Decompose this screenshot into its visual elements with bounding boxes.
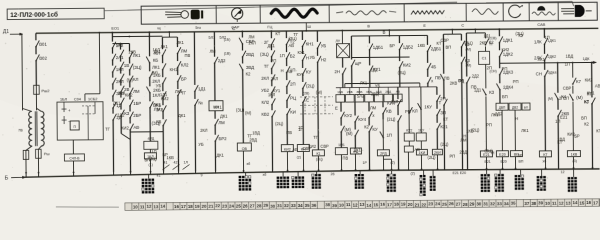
legend icon: bold sine wave xyxy=(271,9,317,17)
svg-text:С: С xyxy=(461,22,464,27)
svg-text:СВР: СВР xyxy=(563,86,572,91)
svg-text:1КВ: 1КВ xyxy=(466,128,474,133)
svg-text:12: 12 xyxy=(559,201,564,206)
svg-text:КУ: КУ xyxy=(306,69,312,74)
svg-text:1СБ2: 1СБ2 xyxy=(88,97,98,101)
svg-text:34: 34 xyxy=(298,203,303,208)
branch 1KV xyxy=(572,63,574,78)
svg-text:31: 31 xyxy=(277,203,282,208)
svg-text:ВП: ВП xyxy=(445,45,451,50)
top supply bus xyxy=(36,28,598,33)
svg-text:1Л: 1Л xyxy=(183,160,188,164)
wire D1 lead xyxy=(10,33,22,35)
svg-text:2БР: 2БР xyxy=(133,113,141,118)
label speckle xyxy=(104,28,600,162)
svg-text:ЗП: ЗП xyxy=(440,110,446,115)
svg-text:1ДБ2: 1ДБ2 xyxy=(403,45,414,50)
svg-text:2ВД: 2ВД xyxy=(459,150,467,155)
svg-text:2Д2: 2Д2 xyxy=(495,111,503,116)
svg-text:(2Ц): (2Ц) xyxy=(306,83,315,88)
svg-text:КИ2: КИ2 xyxy=(585,77,593,82)
branch 1KL chain xyxy=(111,33,113,42)
svg-text:Е: Е xyxy=(423,23,426,28)
svg-text:ТГ: ТГ xyxy=(293,32,299,37)
svg-text:УБ: УБ xyxy=(321,43,327,48)
svg-text:РЦ: РЦ xyxy=(290,96,297,101)
svg-text:1КУ: 1КУ xyxy=(424,104,432,109)
terminal block 14 xyxy=(573,169,575,177)
svg-text:ПВ: ПВ xyxy=(185,53,191,58)
coil 1KL xyxy=(149,149,151,152)
svg-text:2КЛ: 2КЛ xyxy=(248,40,256,45)
svg-text:Н: Н xyxy=(489,41,492,46)
svg-text:(2В): (2В) xyxy=(303,91,309,95)
svg-text:1Д1: 1Д1 xyxy=(483,33,491,38)
boxes DVP row xyxy=(496,103,508,110)
svg-text:КВ: КВ xyxy=(156,119,161,124)
svg-text:Н: Н xyxy=(281,68,284,73)
svg-text:16: 16 xyxy=(380,202,385,207)
svg-text:Рш: Рш xyxy=(44,152,50,156)
svg-text:Д1: Д1 xyxy=(3,29,9,35)
branch LK1 chain xyxy=(128,43,130,51)
svg-text:(М): (М) xyxy=(152,70,159,75)
svg-text:КИ2: КИ2 xyxy=(284,147,291,151)
svg-text:12: 12 xyxy=(561,170,565,174)
svg-text:26: 26 xyxy=(449,201,454,206)
branch 400 xyxy=(398,36,400,43)
svg-text:РП: РП xyxy=(513,79,519,84)
branch 2RD xyxy=(382,102,384,107)
svg-text:14: 14 xyxy=(160,204,165,209)
svg-text:КУ1: КУ1 xyxy=(273,88,281,93)
svg-text:РД: РД xyxy=(459,79,464,84)
svg-text:КЛ: КЛ xyxy=(412,108,418,113)
svg-text:АВ: АВ xyxy=(595,83,600,88)
svg-text:1ДБ1: 1ДБ1 xyxy=(373,45,384,50)
svg-text:(М): (М) xyxy=(127,77,134,82)
svg-text:КН1: КН1 xyxy=(170,67,178,72)
legend divider xyxy=(215,6,217,24)
svg-text:25: 25 xyxy=(236,204,241,209)
svg-text:ЛМ: ЛМ xyxy=(248,34,255,39)
svg-text:12·ПЛ2·000·1сб: 12·ПЛ2·000·1сб xyxy=(10,11,58,19)
svg-text:ДК1: ДК1 xyxy=(154,49,162,54)
svg-text:КЛ2: КЛ2 xyxy=(181,62,189,67)
svg-text:2Д2: 2Д2 xyxy=(117,113,125,118)
wire rect box to C04-V xyxy=(72,140,74,154)
svg-text:(М): (М) xyxy=(576,95,583,100)
svg-text:1КЛ: 1КЛ xyxy=(116,67,124,72)
coil KI2 xyxy=(281,145,293,152)
legend icon: dome over wave xyxy=(538,6,545,10)
branch pair 163-178 xyxy=(162,36,177,38)
legend strip frame xyxy=(141,2,597,24)
svg-text:2ДК4: 2ДК4 xyxy=(503,85,514,90)
svg-text:1БР: 1БР xyxy=(133,101,141,106)
svg-text:14: 14 xyxy=(572,200,577,205)
svg-text:КИ: КИ xyxy=(290,110,296,115)
svg-text:УБ: УБ xyxy=(310,55,316,60)
wire from DV2 xyxy=(514,110,516,150)
svg-text:12: 12 xyxy=(147,204,152,209)
coil K1 xyxy=(312,150,324,156)
loop K2 right xyxy=(474,29,476,33)
svg-text:Н: Н xyxy=(466,61,469,66)
svg-text:(М): (М) xyxy=(245,110,252,115)
svg-text:13: 13 xyxy=(153,204,158,209)
svg-text:41: 41 xyxy=(163,161,167,165)
bottom chain contacts xyxy=(163,165,170,170)
legend icon: plug 2 xyxy=(561,8,574,10)
rectifier box xyxy=(57,102,103,140)
svg-text:ЛК1: ЛК1 xyxy=(176,40,184,45)
branch DK chain xyxy=(498,28,500,30)
switch V01 xyxy=(35,33,37,40)
fuse left sec xyxy=(26,146,32,150)
svg-text:2Д2: 2Д2 xyxy=(218,58,226,63)
mechanical dashed links xyxy=(300,96,333,98)
svg-text:5Л2: 5Л2 xyxy=(357,93,365,98)
svg-text:28: 28 xyxy=(257,204,262,209)
svg-text:Е21: Е21 xyxy=(484,160,490,164)
svg-text:13: 13 xyxy=(360,202,365,207)
svg-text:17: 17 xyxy=(593,200,598,205)
terminal block 9 xyxy=(432,170,434,176)
svg-text:хб: хб xyxy=(263,173,267,177)
coil OV xyxy=(237,143,251,151)
svg-text:30: 30 xyxy=(476,201,481,206)
svg-text:С4Л-В: С4Л-В xyxy=(69,156,80,160)
svg-text:ГЦ: ГЦ xyxy=(267,24,272,29)
coil VP xyxy=(510,151,522,157)
terminal block 3 xyxy=(282,172,284,177)
svg-text:⟨2⟩: ⟨2⟩ xyxy=(296,155,301,159)
wire tie y58 xyxy=(352,56,410,59)
svg-text:ТГ: ТГ xyxy=(247,133,253,138)
svg-text:28: 28 xyxy=(463,202,468,207)
fuse RSh2 xyxy=(34,85,40,94)
branch KU2 boxes xyxy=(408,87,410,133)
svg-text:К7: К7 xyxy=(576,79,582,84)
svg-text:15: 15 xyxy=(579,201,584,206)
svg-text:1ВД: 1ВД xyxy=(252,130,260,135)
svg-text:КУ4: КУ4 xyxy=(358,117,366,122)
svg-text:35: 35 xyxy=(305,203,310,208)
svg-text:КН1: КН1 xyxy=(306,41,315,46)
svg-text:1П: 1П xyxy=(565,62,570,67)
svg-text:Ш: Ш xyxy=(307,24,311,29)
selector boxes row xyxy=(336,95,345,103)
svg-text:2КЛ: 2КЛ xyxy=(116,79,124,84)
terminal block 13 xyxy=(541,169,543,176)
branch KI4 xyxy=(397,87,399,99)
svg-text:1ЛК: 1ЛК xyxy=(534,39,542,44)
svg-text:1ВД: 1ВД xyxy=(566,54,574,59)
legend icon: plug connector xyxy=(165,11,181,14)
svg-text:РП: РП xyxy=(405,109,411,114)
svg-text:(М): (М) xyxy=(548,97,553,101)
wire tie y130 xyxy=(130,131,163,133)
svg-text:2П: 2П xyxy=(487,65,492,70)
svg-text:1КВ: 1КВ xyxy=(156,107,164,112)
legend icon: dashed wave xyxy=(336,12,343,13)
svg-text:РП: РП xyxy=(502,66,508,71)
terminal block 4 xyxy=(297,172,299,177)
svg-text:26: 26 xyxy=(331,172,335,176)
wire from DVP xyxy=(501,110,503,150)
svg-text:23: 23 xyxy=(222,204,227,209)
svg-text:хб: хб xyxy=(542,159,546,163)
svg-text:Е21 Е20: Е21 Е20 xyxy=(453,171,467,175)
bus stubs xyxy=(25,172,27,177)
svg-text:ВП: ВП xyxy=(581,115,587,120)
svg-text:2ДК2: 2ДК2 xyxy=(548,55,557,59)
svg-text:34: 34 xyxy=(504,201,509,206)
svg-text:ЛМ: ЛМ xyxy=(218,120,225,125)
svg-text:КУ2: КУ2 xyxy=(344,113,352,118)
legend divider xyxy=(557,3,559,21)
svg-text:ВП: ВП xyxy=(502,94,508,99)
svg-text:10: 10 xyxy=(133,204,138,209)
svg-text:ЕО1: ЕО1 xyxy=(111,25,119,30)
svg-text:(2Ц): (2Ц) xyxy=(398,70,407,75)
lamp LSD box xyxy=(341,31,343,44)
svg-text:(М): (М) xyxy=(346,131,353,136)
svg-text:11: 11 xyxy=(346,202,351,207)
svg-text:РП: РП xyxy=(271,58,277,63)
terminal block 2 xyxy=(245,172,247,175)
svg-text:КЗ: КЗ xyxy=(124,111,129,116)
branch 2KI coil xyxy=(436,87,438,95)
svg-text:1КВ: 1КВ xyxy=(417,43,425,48)
branch 1KI coil xyxy=(420,87,422,133)
branch K7 right xyxy=(591,62,593,97)
svg-text:2КВ: 2КВ xyxy=(450,81,458,86)
svg-text:ТГ: ТГ xyxy=(313,135,319,140)
svg-text:САР: САР xyxy=(231,24,239,29)
legend divider xyxy=(465,3,467,21)
legend divider xyxy=(528,3,530,21)
svg-text:1П: 1П xyxy=(298,127,303,132)
svg-text:(1Б): (1Б) xyxy=(224,38,231,42)
legend icon: fine zigzag xyxy=(411,11,444,15)
svg-text:КТ: КТ xyxy=(443,117,448,122)
box 1RB xyxy=(335,148,347,155)
svg-text:ПВ: ПВ xyxy=(286,130,292,135)
coil 2KI xyxy=(432,149,442,155)
branch 428 xyxy=(426,35,428,44)
svg-text:(М): (М) xyxy=(316,90,323,95)
box 1LK xyxy=(209,101,223,111)
svg-text:Т: Т xyxy=(439,100,442,105)
svg-text:21: 21 xyxy=(415,202,420,207)
svg-text:4Б: 4Б xyxy=(431,64,436,69)
svg-text:2РД: 2РД xyxy=(380,152,387,156)
svg-text:23: 23 xyxy=(428,201,433,206)
svg-text:Н: Н xyxy=(463,134,466,139)
svg-text:31: 31 xyxy=(483,201,488,206)
svg-text:1РБ: 1РБ xyxy=(338,143,345,147)
svg-text:К2: К2 xyxy=(364,124,369,129)
svg-text:32: 32 xyxy=(490,201,495,206)
svg-text:1ДК: 1ДК xyxy=(583,57,591,61)
svg-text:ДК1: ДК1 xyxy=(178,113,186,118)
terminal block 1 xyxy=(148,174,150,178)
svg-text:14: 14 xyxy=(366,203,371,208)
wire tie 113-130 xyxy=(112,42,129,44)
svg-text:20: 20 xyxy=(202,204,207,209)
coil RD xyxy=(350,148,361,154)
terminal block 12 xyxy=(520,169,522,175)
svg-text:АВ: АВ xyxy=(287,69,293,74)
legend divider xyxy=(502,3,504,21)
branch K1 xyxy=(316,31,318,42)
svg-text:Н2: Н2 xyxy=(321,57,327,62)
svg-text:5го: 5го xyxy=(195,25,201,30)
svg-text:КИ2: КИ2 xyxy=(121,125,129,130)
svg-text:Е: Е xyxy=(306,97,309,102)
svg-text:2П: 2П xyxy=(564,96,569,101)
wire tie row E xyxy=(336,86,437,89)
svg-text:15: 15 xyxy=(373,202,378,207)
svg-text:КТ: КТ xyxy=(436,41,441,46)
svg-text:36: 36 xyxy=(311,203,316,208)
junction strip to bus xyxy=(305,23,307,31)
bottom return bus xyxy=(25,168,600,177)
svg-text:(2Ц): (2Ц) xyxy=(316,157,323,161)
resistor 4RD xyxy=(144,141,158,149)
branch 369 xyxy=(368,102,370,111)
svg-text:1П: 1П xyxy=(280,53,285,58)
svg-text:11: 11 xyxy=(140,204,145,209)
svg-text:ПВ: ПВ xyxy=(342,156,348,161)
svg-text:ЛК1: ЛК1 xyxy=(152,65,160,70)
svg-text:ДК1: ДК1 xyxy=(267,43,275,48)
svg-text:БР: БР xyxy=(574,134,580,139)
svg-text:ЛК1: ЛК1 xyxy=(175,89,183,94)
svg-text:К1: К1 xyxy=(316,152,320,156)
svg-text:(ЗЦ): (ЗЦ) xyxy=(148,156,157,161)
svg-text:КТ: КТ xyxy=(275,31,280,36)
svg-text:УБ: УБ xyxy=(198,142,204,147)
svg-text:2КВ: 2КВ xyxy=(129,49,137,54)
svg-text:1П: 1П xyxy=(151,149,156,154)
terminal block 8 xyxy=(423,170,425,175)
svg-text:щР: щР xyxy=(355,61,362,66)
svg-text:СВР: СВР xyxy=(320,144,329,149)
svg-text:2Н: 2Н xyxy=(334,69,340,74)
svg-text:В: В xyxy=(382,30,385,35)
svg-text:ПВ: ПВ xyxy=(444,76,450,81)
svg-text:КИ2: КИ2 xyxy=(403,63,412,68)
svg-text:КЛ2: КЛ2 xyxy=(261,100,269,105)
svg-text:В: В xyxy=(367,23,370,28)
branch 2KV xyxy=(557,63,559,93)
svg-text:(ЗЦ): (ЗЦ) xyxy=(260,52,269,57)
legend icon: circle with tick xyxy=(509,5,521,18)
svg-text:РП: РП xyxy=(116,43,122,48)
fuse right sec xyxy=(38,146,41,149)
svg-text:1Р: 1Р xyxy=(362,161,367,165)
legend icon: small sine xyxy=(472,9,498,15)
svg-text:КТ: КТ xyxy=(587,91,592,96)
coil KT xyxy=(539,151,551,157)
svg-text:27: 27 xyxy=(250,203,255,208)
svg-text:38: 38 xyxy=(325,202,330,207)
branch 1D1 xyxy=(193,32,195,85)
branch LM xyxy=(213,32,215,57)
svg-text:ЛМ: ЛМ xyxy=(133,89,140,94)
svg-text:УБ: УБ xyxy=(375,83,381,88)
coil KN xyxy=(297,144,309,151)
branch 370 xyxy=(368,36,370,43)
coil E20 xyxy=(496,151,508,157)
svg-text:37: 37 xyxy=(524,201,529,206)
svg-text:(2Ц): (2Ц) xyxy=(427,155,436,160)
svg-text:4РД: 4РД xyxy=(147,137,154,141)
svg-text:11: 11 xyxy=(552,201,557,206)
svg-text:20: 20 xyxy=(408,202,413,207)
coil E21 xyxy=(480,151,492,157)
svg-text:2КЛ: 2КЛ xyxy=(261,76,269,81)
svg-text:2КЛ: 2КЛ xyxy=(271,76,279,81)
svg-text:2ВД: 2ВД xyxy=(246,52,254,57)
svg-text:1КВ: 1КВ xyxy=(166,155,174,160)
svg-text:16: 16 xyxy=(586,200,591,205)
svg-text:1П: 1П xyxy=(386,133,392,138)
svg-text:(3): (3) xyxy=(572,159,576,163)
svg-text:2КЛ: 2КЛ xyxy=(200,128,208,133)
terminal block 5 xyxy=(316,171,318,174)
svg-text:хб: хб xyxy=(246,162,250,166)
legend icon: meter with arrow xyxy=(232,8,243,19)
svg-text:ВП: ВП xyxy=(518,160,523,164)
branch KI2 xyxy=(285,31,287,38)
svg-text:ДК1: ДК1 xyxy=(220,114,228,119)
svg-text:(1В): (1В) xyxy=(224,52,231,56)
svg-text:1П: 1П xyxy=(544,35,549,40)
svg-text:Н: Н xyxy=(515,116,518,121)
svg-text:29: 29 xyxy=(263,203,268,208)
svg-text:30: 30 xyxy=(270,204,275,209)
svg-text:Е: Е xyxy=(335,106,338,111)
branch KN xyxy=(301,31,303,40)
svg-text:33: 33 xyxy=(497,201,502,206)
svg-text:ПВ: ПВ xyxy=(435,75,441,80)
svg-text:18: 18 xyxy=(394,202,399,207)
svg-text:2П: 2П xyxy=(290,82,296,87)
svg-text:2КЛ: 2КЛ xyxy=(391,99,399,104)
svg-text:2ВД: 2ВД xyxy=(385,90,392,94)
svg-text:КЗ: КЗ xyxy=(489,90,494,95)
wire feed 390 xyxy=(388,30,390,36)
svg-text:(ЗЦ): (ЗЦ) xyxy=(236,107,245,112)
svg-text:7: 7 xyxy=(121,174,123,178)
branch 2G chain xyxy=(270,31,272,38)
svg-text:КУ2: КУ2 xyxy=(406,129,412,133)
svg-text:(2Ц): (2Ц) xyxy=(440,142,449,147)
svg-text:КУ: КУ xyxy=(372,127,378,132)
svg-text:РП: РП xyxy=(449,154,455,159)
svg-text:18: 18 xyxy=(188,204,193,209)
svg-text:32: 32 xyxy=(284,203,289,208)
svg-text:ДВП: ДВП xyxy=(499,106,506,110)
svg-text:(ЗЦ): (ЗЦ) xyxy=(464,40,473,45)
svg-text:КИ2: КИ2 xyxy=(502,47,510,52)
svg-text:КИ2: КИ2 xyxy=(125,92,133,97)
svg-text:27: 27 xyxy=(456,202,461,207)
